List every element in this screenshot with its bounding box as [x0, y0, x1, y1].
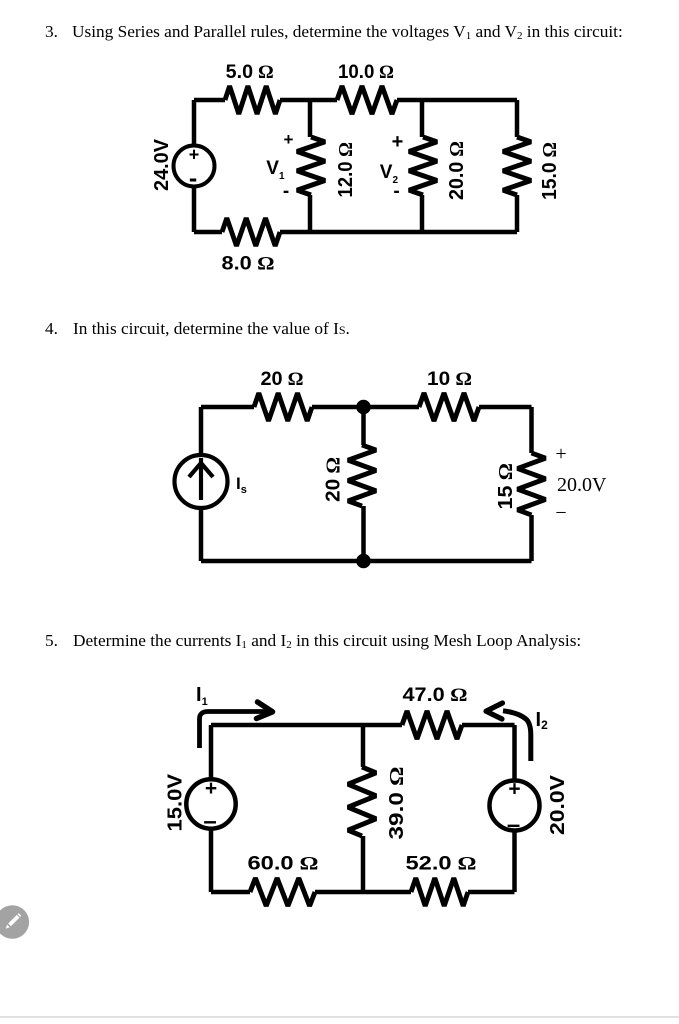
svg-text:47.0 Ω: 47.0 Ω — [403, 685, 468, 706]
svg-text:−: − — [555, 502, 566, 524]
svg-text:39.0 Ω: 39.0 Ω — [386, 767, 408, 840]
svg-text:52.0 Ω: 52.0 Ω — [406, 854, 477, 875]
svg-text:+: + — [555, 443, 566, 465]
svg-text:V1: V1 — [266, 158, 285, 182]
svg-text:12.0 Ω: 12.0 Ω — [335, 142, 357, 198]
svg-text:Is: Is — [236, 474, 247, 496]
svg-text:+: + — [205, 777, 217, 800]
svg-text:5.0 Ω: 5.0 Ω — [226, 62, 274, 83]
svg-text:I1: I1 — [196, 684, 208, 708]
svg-text:+: + — [508, 778, 520, 801]
svg-text:20.0 Ω: 20.0 Ω — [446, 141, 468, 200]
svg-text:–: – — [203, 808, 216, 835]
svg-text:24.0V: 24.0V — [151, 138, 173, 191]
svg-text:–: – — [507, 812, 520, 839]
svg-text:10 Ω: 10 Ω — [427, 369, 472, 390]
svg-text:20 Ω: 20 Ω — [323, 457, 345, 502]
svg-text:+: + — [189, 145, 200, 165]
svg-text:I2: I2 — [536, 709, 549, 732]
svg-text:20.0V: 20.0V — [547, 774, 569, 835]
svg-text:8.0 Ω: 8.0 Ω — [222, 254, 275, 275]
svg-text:-: - — [393, 181, 399, 202]
svg-text:+: + — [392, 131, 404, 153]
svg-text:10.0 Ω: 10.0 Ω — [338, 62, 394, 83]
svg-text:-: - — [283, 181, 289, 202]
svg-text:20 Ω: 20 Ω — [261, 369, 304, 390]
svg-text:15.0V: 15.0V — [165, 773, 187, 831]
svg-text:+: + — [284, 130, 294, 149]
svg-text:15.0 Ω: 15.0 Ω — [539, 142, 561, 200]
svg-text:-: - — [189, 165, 197, 193]
svg-text:20.0V: 20.0V — [557, 474, 607, 496]
svg-text:15 Ω: 15 Ω — [495, 463, 517, 510]
svg-text:60.0 Ω: 60.0 Ω — [248, 854, 319, 875]
